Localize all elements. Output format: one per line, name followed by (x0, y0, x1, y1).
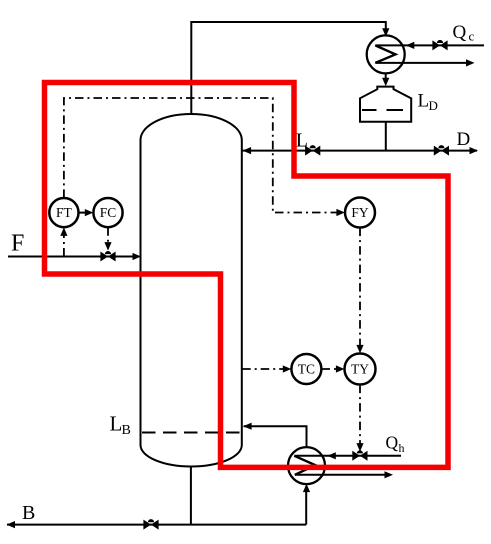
instrument FT (49, 198, 78, 227)
valve on Qc line (432, 40, 447, 51)
signal FC to feed valve (107, 227, 109, 246)
svg-text:D: D (429, 98, 438, 113)
instrument FC (93, 198, 122, 227)
arrow heating outlet (385, 471, 394, 478)
arrow FY signal into TY top (356, 345, 363, 354)
svg-text:h: h (399, 441, 405, 455)
drum outlet pipe (385, 122, 387, 151)
arrow FC to feed valve (104, 242, 111, 251)
reflux and distillate line L-D (243, 150, 477, 152)
svg-text:B: B (22, 502, 35, 524)
arrow vapor return into column (243, 423, 252, 430)
arrow into condenser top (382, 28, 389, 37)
svg-text:F: F (11, 231, 24, 257)
svg-text:TC: TC (298, 362, 315, 377)
svg-text:D: D (457, 129, 471, 150)
arrow feed into column (133, 253, 142, 260)
signal FT tap from feed line (63, 231, 65, 257)
instrument FY (345, 198, 375, 228)
arrow Qh into reboiler (327, 452, 336, 459)
reboiler heating outlet line (295, 474, 390, 476)
column bottom level dashed line LB (142, 432, 241, 434)
valve on Qh line (352, 450, 367, 461)
arrow Qc into condenser (406, 42, 415, 49)
reflux drum vessel (360, 87, 411, 122)
bottoms line B (7, 524, 306, 526)
distillation column T1 (141, 114, 242, 467)
svg-text:Q: Q (453, 22, 467, 43)
overhead vapor pipe (191, 22, 385, 114)
instrument TY (345, 354, 376, 385)
arrow TY signal to Qh valve (356, 443, 363, 452)
arrow coolant outlet (466, 59, 475, 66)
arrow signal into FT (60, 227, 67, 236)
svg-text:L: L (296, 129, 308, 151)
svg-text:L: L (418, 91, 430, 112)
Qc inlet line (375, 44, 484, 46)
arrow into reboiler bottom (303, 484, 310, 493)
reboiler circle (288, 447, 325, 484)
arrow bottoms B (7, 521, 16, 528)
signal TC to TY (322, 368, 341, 370)
signal line FT to FC (79, 212, 91, 214)
Qh inlet line (294, 455, 401, 457)
signal TY to Qh valve (359, 385, 361, 448)
svg-text:Q: Q (386, 433, 399, 453)
arrow TC to TY (336, 365, 345, 372)
red control loop boundary (45, 83, 449, 468)
arrow signal into FY (336, 209, 345, 216)
svg-text:B: B (122, 423, 131, 438)
svg-text:FT: FT (56, 205, 73, 220)
condenser to drum pipe (385, 73, 387, 83)
valve on feed line (100, 251, 115, 261)
arrow reflux into column (243, 147, 252, 154)
signal FT to FY long path (64, 98, 341, 213)
reboiler riser from B line (305, 487, 307, 525)
condenser circle (367, 35, 405, 73)
svg-text:FY: FY (351, 205, 369, 220)
feed line F (8, 256, 139, 258)
column bottom downpipe (190, 466, 192, 525)
valve on bottoms line B (143, 519, 158, 530)
condenser coolant outlet line (375, 62, 471, 64)
svg-text:L: L (110, 412, 123, 436)
reboiler coil zigzag (294, 456, 315, 475)
reboiler vapor return pipe to column (244, 426, 307, 447)
condenser coil zigzag (375, 45, 395, 63)
arrow signal into TC (283, 365, 292, 372)
valve on distillate line D (434, 145, 449, 156)
svg-text:FC: FC (100, 205, 117, 220)
arrow condenser to drum (382, 78, 389, 87)
arrow FT to FC (85, 209, 94, 216)
instrument TC (291, 354, 321, 384)
svg-text:TY: TY (351, 362, 369, 377)
valve on reflux line L (305, 145, 320, 155)
arrow distillate D (470, 147, 479, 154)
signal FY to TY (359, 228, 361, 350)
signal column temperature tap to TC (242, 368, 287, 370)
svg-text:c: c (469, 29, 475, 44)
drum level dashes (362, 109, 403, 111)
